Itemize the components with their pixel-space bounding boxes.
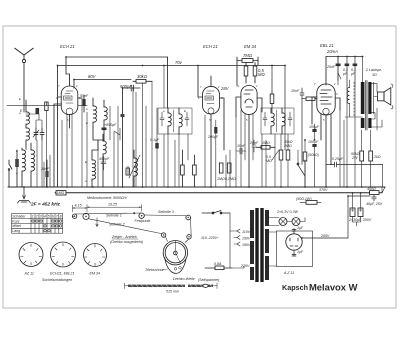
power transformer windings right bbox=[265, 210, 269, 280]
switch tone bbox=[297, 150, 305, 187]
dial pulley 5 bbox=[161, 233, 165, 237]
resistor on x272 bbox=[270, 94, 274, 104]
switch ebl bbox=[338, 73, 341, 85]
svg-text:20mA: 20mA bbox=[326, 49, 338, 54]
capacitor 20nF right bbox=[326, 57, 341, 81]
coil L6 bbox=[103, 134, 106, 187]
volume pot arrow bbox=[272, 150, 279, 160]
shield dashed line bbox=[353, 82, 355, 116]
resistor 2k bbox=[369, 130, 381, 187]
resistor 5k bbox=[302, 97, 317, 100]
dial pulley 4 bbox=[186, 215, 191, 220]
svg-text:20nF: 20nF bbox=[326, 65, 336, 69]
capacitor 0,1uF b bbox=[350, 57, 357, 87]
capacitor 450pF pair bbox=[99, 156, 110, 170]
wire verticals left block bbox=[26, 114, 50, 187]
capacitor 0,25uF bbox=[326, 157, 383, 167]
resistor 400 on bus bbox=[367, 187, 379, 195]
resistor left of it bbox=[244, 63, 248, 84]
label Zeiger-Antrieb bbox=[110, 235, 143, 244]
power transformer windings left bbox=[250, 210, 254, 280]
main bus 2 bbox=[55, 192, 382, 194]
svg-text:0,25μF: 0,25μF bbox=[332, 157, 344, 161]
svg-text:Zeiger - Antrieb: Zeiger - Antrieb bbox=[111, 235, 137, 239]
tube V1 ECH21 bbox=[54, 44, 82, 187]
capacitor C at 122 bbox=[121, 114, 125, 117]
socket ECH21 EBL21 bbox=[50, 242, 76, 276]
resistor R mid bbox=[181, 150, 185, 187]
coil antenna L1 bbox=[20, 100, 30, 128]
coil L5 osc bbox=[92, 150, 96, 187]
capacitor T2b bbox=[185, 112, 189, 126]
capacitor on grid wire bbox=[36, 108, 40, 114]
main bus 1 bbox=[8, 186, 385, 188]
electrolytic 2x30uF bbox=[348, 194, 372, 227]
svg-text:Seilrolle 3: Seilrolle 3 bbox=[158, 210, 174, 214]
wire 80V line bbox=[74, 80, 131, 89]
wire transformer to right bbox=[267, 216, 270, 224]
wire 265V bbox=[302, 196, 370, 238]
ruler bbox=[125, 283, 218, 294]
coil L2 bbox=[26, 128, 30, 148]
svg-text:0,1μF: 0,1μF bbox=[150, 138, 160, 142]
IF transformer T1 primary bbox=[93, 98, 97, 128]
IF transformer T3 primary bbox=[271, 108, 274, 134]
svg-text:Mittel: Mittel bbox=[12, 224, 21, 228]
svg-text:8: 8 bbox=[60, 215, 62, 219]
svg-text:ECH21, EBL21: ECH21, EBL21 bbox=[50, 272, 74, 276]
capacitor T3a bbox=[263, 112, 267, 126]
svg-text:2 Lautspr.: 2 Lautspr. bbox=[365, 68, 382, 72]
svg-text:ECH 21: ECH 21 bbox=[60, 44, 75, 49]
svg-text:Seilrolle 2: Seilrolle 2 bbox=[109, 223, 125, 227]
wire top bus 57 bbox=[66, 56, 168, 58]
svg-text:ECH 21: ECH 21 bbox=[203, 44, 218, 49]
resistor R02M bbox=[225, 163, 236, 181]
capacitor T3b bbox=[288, 112, 292, 126]
capacitor 0,1uF mid bbox=[150, 138, 160, 149]
capacitor 50nF at V1 anode bbox=[80, 94, 89, 112]
svg-text:7MΩ: 7MΩ bbox=[243, 53, 253, 58]
svg-text:10nF: 10nF bbox=[291, 89, 300, 93]
dial pulley 1 bbox=[72, 214, 76, 218]
resistor 55k 2W bbox=[351, 130, 364, 187]
capacitor 1uF az b bbox=[292, 250, 304, 256]
svg-text:110..220V~: 110..220V~ bbox=[201, 236, 219, 240]
capacitor 100uF b bbox=[308, 140, 319, 187]
wire x122 bbox=[122, 88, 124, 187]
dial dimension lines bbox=[73, 203, 142, 212]
resistor 35kO bbox=[279, 134, 293, 187]
trimmer capacitor C1 bbox=[33, 128, 39, 140]
svg-text:2: 2 bbox=[35, 215, 38, 219]
resistor 50k left bbox=[303, 140, 319, 187]
svg-text:1MΩ: 1MΩ bbox=[217, 177, 225, 181]
mains switch bbox=[202, 211, 230, 214]
pilot lamps bbox=[269, 210, 305, 266]
capacitor 10nF v2 bbox=[236, 144, 246, 154]
coil L3 bbox=[22, 148, 26, 187]
capacitor 100uF a bbox=[309, 124, 320, 140]
resistor 50ohm 1W bbox=[296, 197, 321, 204]
antenna bbox=[15, 48, 34, 112]
svg-text:EM 34: EM 34 bbox=[244, 44, 257, 49]
table bbox=[12, 214, 63, 234]
svg-text:190V: 190V bbox=[242, 243, 251, 247]
capacitor T2a bbox=[160, 112, 164, 126]
IF transformer T3 secondary bbox=[282, 108, 285, 134]
svg-text:Kapsch: Kapsch bbox=[282, 283, 308, 292]
speaker bbox=[374, 84, 393, 109]
trimmer capacitor C2 bbox=[40, 128, 44, 140]
capacitor 0,1uF a bbox=[342, 57, 349, 87]
IF transformer T2 primary bbox=[168, 108, 171, 134]
resistor small mid bbox=[126, 168, 129, 175]
svg-text:80V: 80V bbox=[88, 74, 97, 79]
wire v2 area bbox=[205, 115, 230, 187]
wire x167 drop bbox=[167, 57, 169, 108]
choke coil mid right bbox=[345, 80, 363, 117]
svg-text:30nF: 30nF bbox=[41, 167, 50, 171]
svg-text:2×30μF, 300V: 2×30μF, 300V bbox=[348, 218, 372, 222]
svg-text:40μF, 25V: 40μF, 25V bbox=[366, 202, 383, 206]
rectifier AZ11 bbox=[283, 229, 302, 276]
resistor 30kO bbox=[133, 74, 152, 83]
power transformer core bbox=[255, 208, 263, 282]
svg-text:Lang: Lang bbox=[12, 229, 20, 233]
dial pulley 3 bbox=[139, 213, 144, 218]
box T2 frame bbox=[158, 108, 192, 134]
mains taps bbox=[230, 213, 251, 268]
svg-text:μF: μF bbox=[342, 72, 348, 76]
svg-text:370V: 370V bbox=[319, 188, 328, 192]
AZ11 loop box bbox=[277, 231, 313, 267]
svg-text:(50kΩ): (50kΩ) bbox=[308, 153, 319, 157]
svg-text:100μF: 100μF bbox=[308, 140, 319, 144]
svg-text:4,15: 4,15 bbox=[75, 203, 82, 207]
fuse 0,8A bbox=[205, 262, 232, 270]
IF transformer T1 secondary bbox=[104, 100, 107, 128]
pin numbers bbox=[56, 82, 338, 122]
svg-text:0,8A: 0,8A bbox=[214, 262, 222, 266]
dial cord bbox=[72, 213, 191, 243]
svg-text:(Drehko ausgedreht): (Drehko ausgedreht) bbox=[110, 240, 143, 244]
svg-text:μF: μF bbox=[350, 72, 356, 76]
switch S2 bbox=[114, 128, 120, 140]
resistor R1M bbox=[217, 163, 225, 181]
svg-text:Triebschnur: Triebschnur bbox=[145, 268, 165, 272]
svg-text:EM 34: EM 34 bbox=[90, 272, 100, 276]
svg-text:Drehko-Welle: Drehko-Welle bbox=[173, 277, 195, 281]
svg-text:E: E bbox=[184, 109, 186, 113]
dial drum bbox=[163, 241, 187, 274]
top bus right bbox=[326, 56, 363, 58]
svg-text:50nF: 50nF bbox=[80, 94, 89, 98]
svg-text:Festpunkt: Festpunkt bbox=[135, 219, 152, 223]
output transformer primary winding bbox=[361, 57, 365, 129]
output transformer secondary winding bbox=[368, 82, 382, 128]
resistor box on bus2 bbox=[56, 191, 66, 195]
svg-text:Kurz: Kurz bbox=[12, 219, 20, 223]
wire em34 drops bbox=[236, 110, 253, 187]
svg-text:Sockelschaltungen: Sockelschaltungen bbox=[42, 278, 72, 282]
svg-text:2F = 452 kHz: 2F = 452 kHz bbox=[30, 202, 61, 208]
capacitor 40uF bbox=[366, 195, 383, 206]
svg-text:220V: 220V bbox=[240, 264, 250, 268]
capacitor 500pF bbox=[120, 84, 140, 91]
svg-text:A Z 11: A Z 11 bbox=[283, 271, 294, 275]
svg-text:10nF: 10nF bbox=[237, 144, 246, 148]
svg-text:Meßinstrument: 5000Ω/V: Meßinstrument: 5000Ω/V bbox=[87, 196, 128, 200]
wire top bus 65 bbox=[58, 65, 286, 67]
svg-text:3: 3 bbox=[40, 215, 42, 219]
svg-text:AZ 11: AZ 11 bbox=[24, 272, 34, 276]
resistor ant at x46 bbox=[45, 102, 48, 187]
svg-text:265V: 265V bbox=[320, 234, 330, 238]
svg-text:0,2MΩ: 0,2MΩ bbox=[225, 177, 236, 181]
tube V3 EM34 bbox=[236, 44, 262, 187]
socket EM34 bbox=[84, 244, 107, 276]
svg-text:Seilrolle 1: Seilrolle 1 bbox=[106, 213, 122, 217]
svg-text:1: 1 bbox=[32, 215, 34, 219]
wire right drops bbox=[340, 84, 383, 187]
svg-text:+850pF: +850pF bbox=[104, 123, 117, 127]
svg-text:1MΩ: 1MΩ bbox=[57, 191, 65, 195]
output transformer core bbox=[366, 81, 367, 131]
svg-text:MΩ: MΩ bbox=[258, 72, 265, 77]
IF transformer T2 secondary bbox=[179, 108, 182, 134]
dial pulley 2 bbox=[83, 213, 89, 219]
capacitor 20nF v2 bbox=[249, 140, 259, 152]
svg-text:Schalter: Schalter bbox=[12, 215, 26, 219]
svg-text:6: 6 bbox=[52, 215, 54, 219]
svg-text:70v: 70v bbox=[175, 60, 183, 65]
svg-text:2W: 2W bbox=[351, 156, 358, 160]
junction wires mid left bbox=[62, 98, 98, 187]
svg-text:5: 5 bbox=[48, 215, 50, 219]
svg-text:4: 4 bbox=[44, 215, 46, 219]
ground symbol bbox=[18, 187, 31, 203]
terminal letters bbox=[16, 97, 186, 183]
coil L7 variometer bbox=[128, 150, 140, 187]
svg-text:2kΩ: 2kΩ bbox=[373, 155, 381, 159]
tube V4 EBL21 bbox=[312, 43, 340, 187]
capacitor 30nF bbox=[41, 160, 50, 187]
switch S1 bbox=[8, 160, 12, 187]
socket AZ11 bbox=[19, 243, 43, 276]
box T3 frame bbox=[261, 108, 294, 134]
coil L4 bbox=[31, 143, 35, 187]
resistor R mid2 bbox=[193, 155, 197, 187]
capacitor 200pF bbox=[207, 120, 219, 187]
capacitor 1uF az a bbox=[292, 226, 304, 231]
svg-text:3Ω: 3Ω bbox=[372, 73, 377, 77]
svg-text:MΩ: MΩ bbox=[266, 159, 272, 163]
svg-text:19,25: 19,25 bbox=[108, 203, 117, 207]
svg-text:EBL 21: EBL 21 bbox=[320, 43, 334, 48]
svg-text:150V: 150V bbox=[242, 237, 251, 241]
tube V2 ECH21 bbox=[198, 44, 230, 187]
svg-text:200pF: 200pF bbox=[207, 135, 219, 139]
svg-text:E: E bbox=[19, 97, 21, 101]
svg-text:30kΩ: 30kΩ bbox=[137, 74, 148, 79]
resistor 2MO bbox=[286, 134, 290, 187]
svg-text:515 mm: 515 mm bbox=[166, 290, 179, 294]
wire x272 x285 top bbox=[272, 66, 285, 151]
svg-text:1μF: 1μF bbox=[297, 226, 304, 230]
svg-text:450pF: 450pF bbox=[99, 157, 110, 161]
svg-text:110V: 110V bbox=[242, 230, 251, 234]
capacitor 10nF ebl bbox=[291, 88, 304, 165]
capacitor 850pF with IF1 bbox=[102, 123, 118, 140]
svg-text:2MΩ: 2MΩ bbox=[283, 144, 292, 148]
svg-text:(Seilspanner): (Seilspanner) bbox=[198, 278, 219, 282]
resistor 0,5MO vertical bbox=[253, 63, 265, 84]
wire verticals mid bbox=[133, 83, 143, 187]
svg-text:28V: 28V bbox=[220, 86, 230, 91]
svg-text:2×6,3V 0,3W: 2×6,3V 0,3W bbox=[276, 210, 298, 214]
capacitor block left bbox=[15, 150, 19, 187]
wire grid return y106 bbox=[7, 105, 87, 107]
resistor 1MO horizontal bbox=[256, 141, 275, 163]
resistor 7MO top bbox=[237, 53, 258, 86]
svg-text:1μF: 1μF bbox=[297, 250, 304, 254]
svg-text:Melavox W: Melavox W bbox=[309, 281, 358, 292]
